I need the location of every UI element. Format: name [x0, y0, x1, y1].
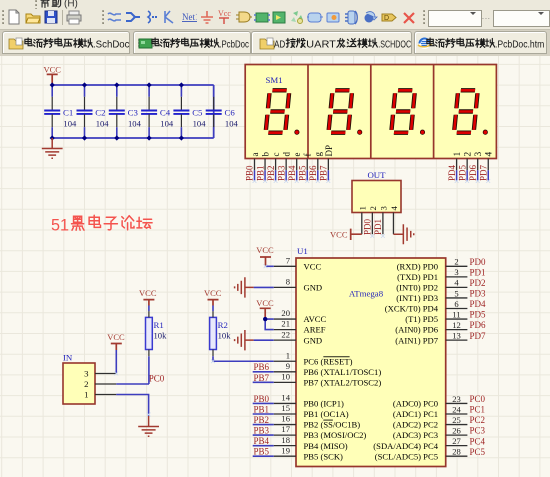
net label PD0 (OUT pin2)	[363, 218, 373, 235]
resistor R2 10k	[210, 311, 232, 356]
svg-text:(TXD) PD1: (TXD) PD1	[397, 272, 438, 282]
svg-text:17: 17	[281, 424, 290, 434]
svg-text:23: 23	[452, 394, 461, 404]
svg-text:PB1: PB1	[255, 165, 265, 181]
capacitor C6 value 104	[206, 85, 239, 138]
wire stub below SM1 pin e	[296, 170, 298, 181]
wire stub net PB3	[253, 434, 274, 436]
svg-text:PC5: PC5	[470, 447, 486, 457]
svg-text:PD5: PD5	[470, 310, 487, 320]
svg-text:PB5 (SCK): PB5 (SCK)	[304, 451, 344, 461]
wire stub net PB4	[253, 445, 274, 447]
wire R1 bottom to PC0 net	[148, 356, 150, 384]
wire top bus of capacitor bank	[52, 84, 214, 86]
svg-text:PD1: PD1	[373, 219, 383, 235]
svg-text:VCC: VCC	[330, 230, 348, 240]
ground (U1 pin22)	[235, 330, 254, 350]
7-seg digit 1 showing 8.	[266, 90, 299, 134]
svg-text:PB0: PB0	[254, 394, 270, 404]
svg-text:PC6 (RESET): PC6 (RESET)	[304, 356, 353, 366]
net label PD7	[478, 164, 488, 181]
svg-text:VCC: VCC	[139, 288, 157, 298]
svg-text:PB2: PB2	[266, 165, 276, 181]
svg-text:PB7: PB7	[254, 373, 270, 383]
net label PD6	[470, 320, 487, 330]
svg-text:2: 2	[454, 257, 458, 267]
pin 4 of SM1 digit4	[485, 152, 495, 171]
pin 20 of U1 (AVCC)	[274, 308, 327, 324]
pin 3 of U1 ((TXD) PD1)	[397, 267, 467, 282]
pin 11 of U1 ((T1) PD5)	[405, 309, 467, 324]
svg-text:VCC: VCC	[107, 332, 125, 342]
svg-text:13: 13	[452, 330, 461, 340]
svg-text:PB7 (XTAL2/TOSC2): PB7 (XTAL2/TOSC2)	[304, 377, 382, 387]
junction node AVCC	[263, 317, 267, 321]
net label PB5	[297, 165, 307, 181]
pin 19 of U1 (PB5 (SCK))	[274, 445, 343, 461]
svg-text:(INT1) PD3: (INT1) PD3	[396, 293, 438, 303]
wire right end of capacitor bank	[213, 85, 215, 138]
svg-text:24: 24	[452, 404, 461, 414]
svg-text:(ADC3) PC3: (ADC3) PC3	[393, 430, 438, 440]
svg-text:26: 26	[452, 425, 461, 435]
svg-text:e: e	[292, 153, 302, 157]
pin 28 of U1 ((SCL/ADC5) PC5)	[375, 447, 468, 462]
wire stub net PB0	[253, 402, 274, 404]
net label PC0	[149, 373, 165, 383]
pin 12 of U1 ((AIN0) PD6)	[395, 320, 467, 335]
net label PB4	[287, 165, 297, 181]
svg-text:3: 3	[474, 152, 484, 157]
svg-text:28: 28	[452, 447, 461, 457]
net label PD5	[457, 164, 467, 181]
capacitor C2 value 104	[77, 85, 110, 138]
svg-text:R2: R2	[218, 320, 228, 330]
wire VCC to U1 pin7	[266, 265, 274, 267]
svg-text:c: c	[271, 153, 281, 157]
svg-text:PD4: PD4	[470, 299, 487, 309]
net label PB7	[254, 373, 270, 383]
wire stub below SM1 pin DP	[327, 170, 329, 181]
svg-text:PD6: PD6	[468, 164, 478, 181]
pin 17 of U1 (PB3 (MOSI/OC2))	[274, 424, 367, 440]
power port VCC (R2)	[204, 288, 222, 305]
wire IN pin3 to VCC	[115, 350, 117, 374]
svg-text:22: 22	[281, 329, 290, 339]
svg-text:.SCHDOC: .SCHDOC	[378, 39, 411, 50]
junction node bottom of C2	[82, 135, 87, 140]
svg-text:PC1: PC1	[470, 405, 486, 415]
pin 1 of U1 (PC6 (RESET))	[274, 350, 353, 366]
wire stub net PB7	[253, 381, 274, 383]
svg-text:1: 1	[357, 206, 367, 210]
wire stub net PB5	[253, 455, 274, 457]
svg-text:PD5: PD5	[457, 164, 467, 181]
svg-text:18: 18	[281, 435, 290, 445]
svg-text:PB4: PB4	[287, 165, 297, 181]
ground (U1 pin8)	[235, 277, 254, 297]
pin 21 of U1 (AREF)	[274, 319, 326, 335]
svg-text:2: 2	[368, 206, 378, 210]
junction node bottom of C4	[147, 135, 152, 140]
pin 4 of U1 ((INT0) PD2)	[396, 278, 467, 293]
svg-text:DP: DP	[324, 145, 334, 157]
svg-text:PB6: PB6	[308, 165, 318, 181]
svg-text:PD0: PD0	[363, 218, 373, 235]
net label PB3	[276, 165, 286, 181]
wire U1 pin22 to ground	[254, 339, 274, 341]
svg-text:PD3: PD3	[470, 289, 487, 299]
svg-text:PB0: PB0	[245, 165, 255, 181]
svg-text:20: 20	[281, 308, 290, 318]
resistor R1 10k	[146, 311, 168, 356]
svg-text:21: 21	[281, 319, 290, 329]
designator SM1	[266, 75, 283, 85]
svg-text:Net1: Net1	[182, 12, 197, 22]
ground (IN pin1)	[138, 416, 159, 436]
net label PB5 (U1 side)	[254, 447, 270, 457]
svg-text:OUT: OUT	[367, 170, 386, 180]
svg-text:(AIN0) PD6: (AIN0) PD6	[395, 325, 438, 335]
svg-text:PD0: PD0	[470, 257, 487, 267]
net label PD4	[470, 299, 487, 309]
svg-text:PC3: PC3	[470, 426, 486, 436]
wire stub below SM1 pin f	[306, 170, 308, 181]
pin 3 of IN	[84, 369, 116, 379]
svg-text:PD7: PD7	[470, 331, 487, 341]
svg-text:10k: 10k	[218, 331, 232, 341]
wire R2 bottom to U1 pin1 RESET	[213, 356, 274, 361]
junction node bottom of C3	[114, 135, 119, 140]
power port VCC (U1 AVCC)	[256, 298, 274, 319]
svg-text:104: 104	[160, 119, 174, 129]
power port VCC (U1 pin7)	[256, 245, 274, 266]
wire stub below SM1 pin c	[275, 170, 277, 181]
wire stub net PB2	[253, 424, 274, 426]
pin 13 of U1 ((AIN1) PD7)	[395, 330, 467, 345]
net label PB4 (U1 side)	[254, 436, 270, 446]
7-segment display SM1 body	[245, 65, 496, 159]
net label PB6	[254, 362, 270, 372]
svg-text:VCC: VCC	[304, 261, 322, 271]
svg-text:PB2: PB2	[254, 415, 270, 425]
pin 16 of U1 (PB2 (SS/OC1B))	[274, 414, 361, 430]
wire IN pin2 to R1 bottom (net PC0)	[116, 383, 149, 385]
pin e of SM1	[292, 153, 302, 171]
net label PD1 (OUT pin3)	[373, 219, 383, 235]
net label PB2	[266, 165, 276, 181]
pin 27 of U1 ((SDA/ADC4) PC4)	[373, 436, 467, 451]
part name ATmega8	[349, 288, 384, 298]
designator OUT	[367, 170, 386, 180]
svg-text:g: g	[313, 152, 323, 157]
7-seg digit 3 showing 8.	[391, 90, 424, 134]
svg-text:15: 15	[281, 403, 290, 413]
wire end markers	[114, 179, 490, 416]
net label PC0	[470, 394, 486, 404]
svg-text:1: 1	[286, 350, 290, 360]
svg-text:f: f	[303, 154, 313, 157]
svg-text:AREF: AREF	[304, 325, 326, 335]
pin 23 of U1 ((ADC0) PC0)	[393, 394, 468, 409]
svg-text:PB3: PB3	[254, 426, 270, 436]
svg-text:C1: C1	[63, 107, 73, 117]
net label PC1	[470, 405, 486, 415]
pin 8 of U1 (GND)	[274, 277, 322, 293]
designator IN	[63, 353, 73, 363]
pin 10 of U1 (PB7 (XTAL2/TOSC2))	[274, 371, 382, 387]
svg-text:10: 10	[281, 371, 290, 381]
svg-text:PD6: PD6	[470, 320, 487, 330]
pin 14 of U1 (PB0 (ICP1))	[274, 393, 344, 409]
svg-text:6: 6	[454, 299, 459, 309]
net label PC5	[470, 447, 486, 457]
power port VCC (capacitor bank)	[43, 65, 61, 85]
wire VCC to U1 pins 20,21	[265, 319, 274, 330]
svg-text:(SCL/ADC5) PC5: (SCL/ADC5) PC5	[375, 451, 438, 461]
svg-text:(INT0) PD2: (INT0) PD2	[396, 283, 438, 293]
connector IN body	[63, 363, 95, 404]
svg-text:C5: C5	[192, 107, 203, 117]
svg-text:(AIN1) PD7: (AIN1) PD7	[395, 335, 438, 345]
svg-text:104: 104	[193, 119, 207, 129]
7-seg digit 2 showing 8.	[328, 90, 361, 134]
svg-text:SM1: SM1	[266, 75, 283, 85]
svg-text:(ADC2) PC2: (ADC2) PC2	[393, 420, 438, 430]
svg-text:3: 3	[378, 206, 388, 211]
capacitor C3 value 104	[109, 85, 142, 138]
wire stub below SM1 pin a	[254, 170, 256, 181]
net label PB7	[319, 165, 329, 181]
svg-text:Vcc: Vcc	[218, 9, 231, 18]
svg-text:PB4: PB4	[254, 436, 270, 446]
wire U1 pin8 to ground	[254, 286, 274, 288]
svg-text:12: 12	[452, 320, 461, 330]
net label PD4	[447, 164, 457, 181]
wire stub below SM1 digit pin 3	[477, 170, 479, 181]
svg-text:PC4: PC4	[470, 436, 486, 446]
svg-text:9: 9	[286, 361, 290, 371]
pin 2 of U1 ((RXD) PD0)	[397, 257, 468, 272]
svg-text:(SDA/ADC4) PC4: (SDA/ADC4) PC4	[373, 441, 438, 451]
svg-text:PB0 (ICP1): PB0 (ICP1)	[304, 399, 344, 409]
svg-text:(XCK/T0) PD4: (XCK/T0) PD4	[385, 304, 439, 314]
pin 26 of U1 ((ADC3) PC3)	[393, 425, 468, 440]
svg-text:PB3 (MOSI/OC2): PB3 (MOSI/OC2)	[304, 430, 367, 440]
svg-text:2: 2	[84, 379, 88, 389]
svg-text:(ADC1) PC1: (ADC1) PC1	[393, 409, 438, 419]
svg-text:14: 14	[281, 393, 290, 403]
connector OUT body	[352, 181, 401, 213]
pin a of SM1	[250, 153, 260, 171]
svg-text:d: d	[282, 152, 292, 157]
svg-text:(T1) PD5: (T1) PD5	[405, 314, 438, 324]
net label PB3 (U1 side)	[254, 426, 270, 436]
net label PB0	[245, 165, 255, 181]
wire stub below SM1 pin d	[285, 170, 287, 181]
wire stub net PB6	[253, 371, 274, 373]
pin 18 of U1 (PB4 (MISO))	[274, 435, 348, 451]
net label PD0	[470, 257, 487, 267]
svg-text:PB2 (SS/OC1B): PB2 (SS/OC1B)	[304, 420, 361, 430]
designator U1	[297, 246, 308, 256]
svg-text:AVCC: AVCC	[304, 314, 327, 324]
svg-text:VCC: VCC	[256, 245, 274, 255]
net label PC3	[470, 426, 486, 436]
net label PB2 (U1 side)	[254, 415, 270, 425]
wire stub below SM1 pin g	[317, 170, 319, 181]
svg-text:U1: U1	[297, 246, 308, 256]
svg-text:.SchDoc: .SchDoc	[93, 39, 130, 50]
pin 7 of U1 (VCC)	[274, 255, 322, 271]
svg-text:4: 4	[485, 152, 495, 157]
svg-text:PB4 (MISO): PB4 (MISO)	[304, 441, 348, 451]
pin 1 of SM1 digit4	[453, 152, 463, 171]
op-amp U1 ATmega8 body	[296, 258, 446, 467]
pin 1 of IN	[84, 390, 116, 400]
svg-text:VCC: VCC	[204, 288, 222, 298]
pin 9 of U1 (PB6 (XTAL1/TOSC1))	[274, 361, 382, 377]
svg-text:PB7: PB7	[319, 165, 329, 181]
pin 2 of IN	[84, 379, 116, 389]
svg-text:(ADC0) PC0: (ADC0) PC0	[393, 399, 438, 409]
svg-text:b: b	[260, 152, 270, 157]
svg-text:1: 1	[84, 390, 88, 400]
svg-text:3: 3	[84, 369, 89, 379]
svg-text:.PcbDoc: .PcbDoc	[219, 39, 249, 50]
net label PD5	[470, 310, 487, 320]
junction node bottom of C1	[50, 135, 55, 140]
svg-text:PB6: PB6	[254, 362, 270, 372]
wire VCC to R1 top	[148, 306, 150, 312]
net label PB1	[255, 165, 265, 181]
net label PB0 (U1 side)	[254, 394, 270, 404]
wire stub below SM1 pin b	[264, 170, 266, 181]
svg-text:PB5: PB5	[297, 165, 307, 181]
net label PD3	[470, 289, 487, 299]
svg-text:PD4: PD4	[447, 164, 457, 181]
svg-text:104: 104	[225, 119, 239, 129]
svg-text:IN: IN	[63, 353, 73, 363]
power port VCC (IN pin3)	[107, 332, 125, 350]
svg-text:ATmega8: ATmega8	[349, 288, 384, 298]
wire stub below SM1 digit pin 2	[466, 170, 468, 181]
pin 25 of U1 ((ADC2) PC2)	[393, 415, 468, 430]
pin d of SM1	[282, 152, 292, 171]
pin 2 of SM1 digit4	[464, 152, 474, 171]
capacitor C4 value 104	[141, 85, 174, 138]
wire stub below SM1 digit pin 4	[487, 170, 489, 181]
pin 15 of U1 (PB1 (OC1A))	[274, 403, 349, 419]
power port VCC (OUT pin1)	[330, 229, 362, 240]
pin g of SM1	[313, 152, 323, 171]
pin 5 of U1 ((INT1) PD3)	[396, 288, 467, 303]
capacitor C5 value 104	[173, 85, 206, 138]
svg-text:5: 5	[454, 288, 458, 298]
svg-text:VCC: VCC	[43, 65, 61, 75]
svg-text:16: 16	[281, 414, 290, 424]
svg-text:UART: UART	[306, 39, 336, 50]
svg-text:D: D	[384, 15, 389, 22]
svg-text:PB3: PB3	[276, 165, 286, 181]
svg-text:PC0: PC0	[149, 373, 165, 383]
net label PD1	[470, 267, 486, 277]
net label PB1 (U1 side)	[254, 404, 270, 414]
svg-text:104: 104	[96, 119, 110, 129]
wire stub net PB1	[253, 413, 274, 415]
svg-text:25: 25	[452, 415, 461, 425]
svg-text:1: 1	[453, 152, 463, 157]
svg-text:VCC: VCC	[256, 298, 274, 308]
svg-text:3: 3	[454, 267, 458, 277]
wire bottom bus of capacitor bank	[52, 137, 214, 139]
svg-text:104: 104	[63, 119, 77, 129]
pin 2 of OUT	[368, 206, 378, 234]
pin 4 of OUT	[389, 206, 399, 235]
svg-text:C4: C4	[160, 107, 171, 117]
ground (OUT pin4)	[393, 224, 413, 244]
svg-text:104: 104	[128, 119, 142, 129]
capacitor C1 value 104	[44, 85, 77, 138]
svg-text:a: a	[250, 153, 260, 157]
wire stub below SM1 digit pin 1	[456, 170, 458, 181]
net label PB6	[308, 165, 318, 181]
pin c of SM1	[271, 153, 281, 171]
junction node top of C1	[50, 82, 55, 87]
pin DP of SM1	[324, 145, 334, 170]
pin b of SM1	[260, 152, 270, 171]
pin 3 of SM1 digit4	[474, 152, 484, 171]
svg-text:PB5: PB5	[254, 447, 270, 457]
svg-text:4: 4	[454, 278, 459, 288]
7-seg digit 4 showing 8.	[454, 90, 487, 134]
svg-text:PB1: PB1	[254, 404, 270, 414]
junction node top of C3	[114, 82, 119, 87]
svg-text:GND: GND	[304, 283, 323, 293]
junction node top of C2	[82, 82, 87, 87]
wire VCC to R2 top	[212, 306, 214, 312]
svg-text:R1: R1	[154, 320, 164, 330]
svg-text:51: 51	[51, 217, 69, 235]
junction node bottom of C5	[179, 135, 184, 140]
svg-text:11: 11	[452, 309, 460, 319]
svg-text:2: 2	[464, 152, 474, 157]
svg-text:C6: C6	[225, 107, 236, 117]
ground (capacitor bank)	[42, 138, 63, 158]
pin 1 of OUT	[357, 206, 367, 234]
svg-text:C2: C2	[95, 107, 105, 117]
svg-text:8: 8	[286, 277, 290, 287]
svg-text:PB6 (XTAL1/TOSC1): PB6 (XTAL1/TOSC1)	[304, 367, 382, 377]
svg-text:10k: 10k	[154, 331, 168, 341]
svg-text:AD: AD	[274, 39, 285, 50]
net label PD7	[470, 331, 487, 341]
net label PC2	[470, 415, 486, 425]
junction node top of C5	[179, 82, 184, 87]
svg-text:27: 27	[452, 436, 461, 446]
svg-text:PD7: PD7	[478, 164, 488, 181]
svg-text:PD2: PD2	[470, 278, 486, 288]
pin f of SM1	[303, 154, 313, 171]
svg-text:PB1 (OC1A): PB1 (OC1A)	[304, 409, 349, 419]
net label PD6	[468, 164, 478, 181]
junction node top of C4	[147, 82, 152, 87]
svg-text:GND: GND	[304, 335, 323, 345]
net label PD2	[470, 278, 486, 288]
power port VCC (R1)	[139, 288, 157, 305]
pin 6 of U1 ((XCK/T0) PD4)	[385, 299, 468, 314]
svg-text:7: 7	[286, 255, 291, 265]
